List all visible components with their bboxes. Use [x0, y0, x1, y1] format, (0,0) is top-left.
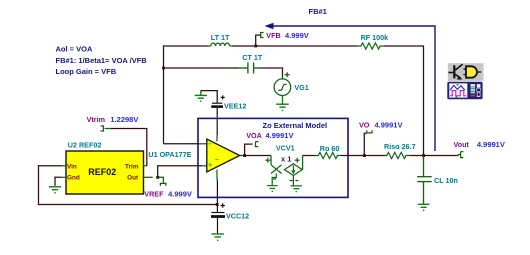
- node VFB junction dot: [254, 45, 257, 48]
- resistor RF zigzag: [357, 43, 384, 49]
- wire RF to output node (right corner down): [384, 46, 424, 156]
- wire CT to VG1: [261, 68, 283, 77]
- wire inverting-loop rail y=46 from left vertical to LT: [164, 46, 208, 144]
- pin stub Out: [144, 176, 153, 178]
- svg-text:CT 1T: CT 1T: [242, 53, 263, 62]
- probe VO stub: [364, 133, 366, 155]
- probe VREF bracket opening down: [160, 183, 166, 186]
- controlled source VCV1 input X symbol: [271, 156, 282, 174]
- probe VFB stub: [256, 35, 261, 46]
- svg-text:4.9991V: 4.9991V: [477, 140, 505, 149]
- box Zo External Model: [198, 118, 348, 197]
- probe Vout bracket: [461, 152, 464, 158]
- node CT tee junction dot: [162, 67, 165, 70]
- capacitor CT plates: [239, 62, 262, 73]
- svg-text:Gnd: Gnd: [67, 175, 80, 182]
- component REF02 U2 body: [66, 151, 144, 194]
- node CL junction dot: [422, 154, 425, 157]
- svg-text:4.999V: 4.999V: [285, 31, 309, 40]
- wire VFB node to RF: [256, 45, 357, 47]
- resistor Riso zigzag: [384, 152, 410, 158]
- ground below CL: [418, 204, 430, 210]
- svg-text:VFB: VFB: [266, 31, 280, 40]
- node VO junction dot: [363, 154, 366, 157]
- wire FB#1 arrowhead: [265, 23, 274, 29]
- svg-text:Vtrim: Vtrim: [87, 115, 105, 124]
- svg-text:Zo External Model: Zo External Model: [263, 121, 328, 130]
- op-amp minus mark: [208, 143, 211, 145]
- op-amp U1 pin stubs: [199, 135, 244, 179]
- wire Vin loop to VCC node: [39, 166, 218, 205]
- svg-text:Aol = VOA: Aol = VOA: [56, 44, 93, 53]
- wire VCV1 output pigtail to ground: [290, 176, 299, 186]
- svg-text:Vout: Vout: [454, 140, 470, 149]
- wire Gnd pin to ground: [55, 177, 61, 186]
- plus mark VCC12: [221, 203, 225, 207]
- inductor LT coil: [208, 43, 232, 46]
- op-amp plus mark: [208, 160, 218, 167]
- svg-text:FB#1: 1/Beta1= VOA /VFB: FB#1: 1/Beta1= VOA /VFB: [56, 56, 148, 65]
- ground at VCV1 output: [291, 186, 303, 192]
- battery VCC12 below op-amp: [216, 180, 218, 213]
- svg-text:VCV1: VCV1: [276, 144, 295, 153]
- svg-text:U2 REF02: U2 REF02: [68, 140, 102, 149]
- ground at REF02 Gnd: [49, 187, 61, 193]
- svg-text:VREF: VREF: [144, 190, 164, 199]
- wire VEE ground to battery: [201, 91, 217, 103]
- svg-text:VO: VO: [359, 121, 370, 130]
- svg-text:FB#1: FB#1: [309, 7, 327, 16]
- svg-text:VEE12: VEE12: [224, 101, 246, 110]
- plus mark VCV1 output: [295, 158, 300, 163]
- ground below VG1: [276, 96, 289, 111]
- controlled source VCV1 diamond: [285, 164, 303, 176]
- probe VFB bracket: [261, 33, 264, 38]
- svg-text:LT 1T: LT 1T: [211, 33, 230, 42]
- svg-text:REF02: REF02: [88, 167, 116, 177]
- svg-text:VG1: VG1: [294, 83, 308, 92]
- plus mark VEE12: [221, 95, 225, 99]
- wire Riso to Vout probe: [409, 155, 458, 157]
- probe VREF stub: [158, 177, 164, 183]
- wire op-amp plus input from REF02 out: [158, 166, 202, 178]
- svg-text:RF 100k: RF 100k: [361, 33, 389, 42]
- plus mark VG1: [285, 72, 290, 77]
- wire Ro to VO node: [341, 155, 387, 157]
- wire FB#1 feedback annotation polyline with arrow: [267, 26, 435, 151]
- pin stub Trim: [144, 165, 148, 167]
- pin stub Vin: [61, 165, 66, 167]
- probe Vtrim bracket: [101, 126, 104, 131]
- capacitor CL branch: [417, 156, 432, 205]
- wire VCV1 diamond to Ro: [302, 156, 304, 170]
- node VCC junction dot: [216, 203, 219, 206]
- wire op-amp minus input from x163.5: [164, 143, 200, 145]
- svg-text:Trim: Trim: [125, 163, 139, 170]
- wire LT to VFB node: [232, 45, 256, 47]
- svg-text:Vin: Vin: [67, 163, 77, 170]
- wire Vtrim from Trim pin: [111, 129, 147, 166]
- battery VCC12 symbol: [211, 213, 225, 234]
- annotation text Aol/FB/LoopGain: [56, 44, 148, 76]
- svg-text:4.9991V: 4.9991V: [375, 121, 403, 130]
- svg-text:Riso 26.7: Riso 26.7: [384, 142, 416, 151]
- svg-text:Loop Gain = VFB: Loop Gain = VFB: [56, 67, 117, 76]
- resistor Ro zigzag: [316, 152, 341, 158]
- wire CT rail y=68: [164, 67, 239, 69]
- svg-text:4.999V: 4.999V: [168, 190, 192, 199]
- battery VEE12 symbol: [211, 103, 223, 135]
- svg-text:4.9991V: 4.9991V: [266, 131, 294, 140]
- node VREF junction dot: [156, 176, 159, 179]
- svg-text:x 1: x 1: [281, 155, 291, 164]
- op-amp U1 OPA177E triangle: [207, 139, 240, 172]
- ground at VCV1 input: [267, 186, 278, 192]
- icon PSpice schematics (top): [448, 63, 484, 81]
- wire op-amp output rail: [244, 155, 272, 157]
- svg-text:U1 OPA177E: U1 OPA177E: [148, 150, 191, 159]
- pin stub Gnd: [61, 176, 66, 178]
- svg-text:VOA: VOA: [246, 131, 262, 140]
- source VG1 circle: [274, 77, 291, 96]
- plus mark VCV1 input: [265, 158, 270, 163]
- battery VEE12 ground: [195, 91, 207, 102]
- node VOA junction dot: [243, 154, 246, 157]
- svg-text:VCC12: VCC12: [226, 212, 249, 221]
- probe VOA stub: [245, 144, 253, 155]
- svg-text:Out: Out: [127, 175, 139, 182]
- ground below VCC12: [212, 234, 224, 240]
- svg-text:CL 10n: CL 10n: [434, 176, 458, 185]
- svg-text:Ro 60: Ro 60: [320, 144, 340, 153]
- wire VCV1 input pigtail to ground: [272, 174, 276, 186]
- icon probe waveforms (bottom): [447, 82, 482, 99]
- probe Vout tail: [458, 154, 461, 156]
- probe Vtrim tail: [105, 128, 111, 130]
- probe VOA bracket: [256, 142, 259, 147]
- svg-text:1.2298V: 1.2298V: [110, 115, 138, 124]
- probe VO bracket opening up: [367, 130, 372, 133]
